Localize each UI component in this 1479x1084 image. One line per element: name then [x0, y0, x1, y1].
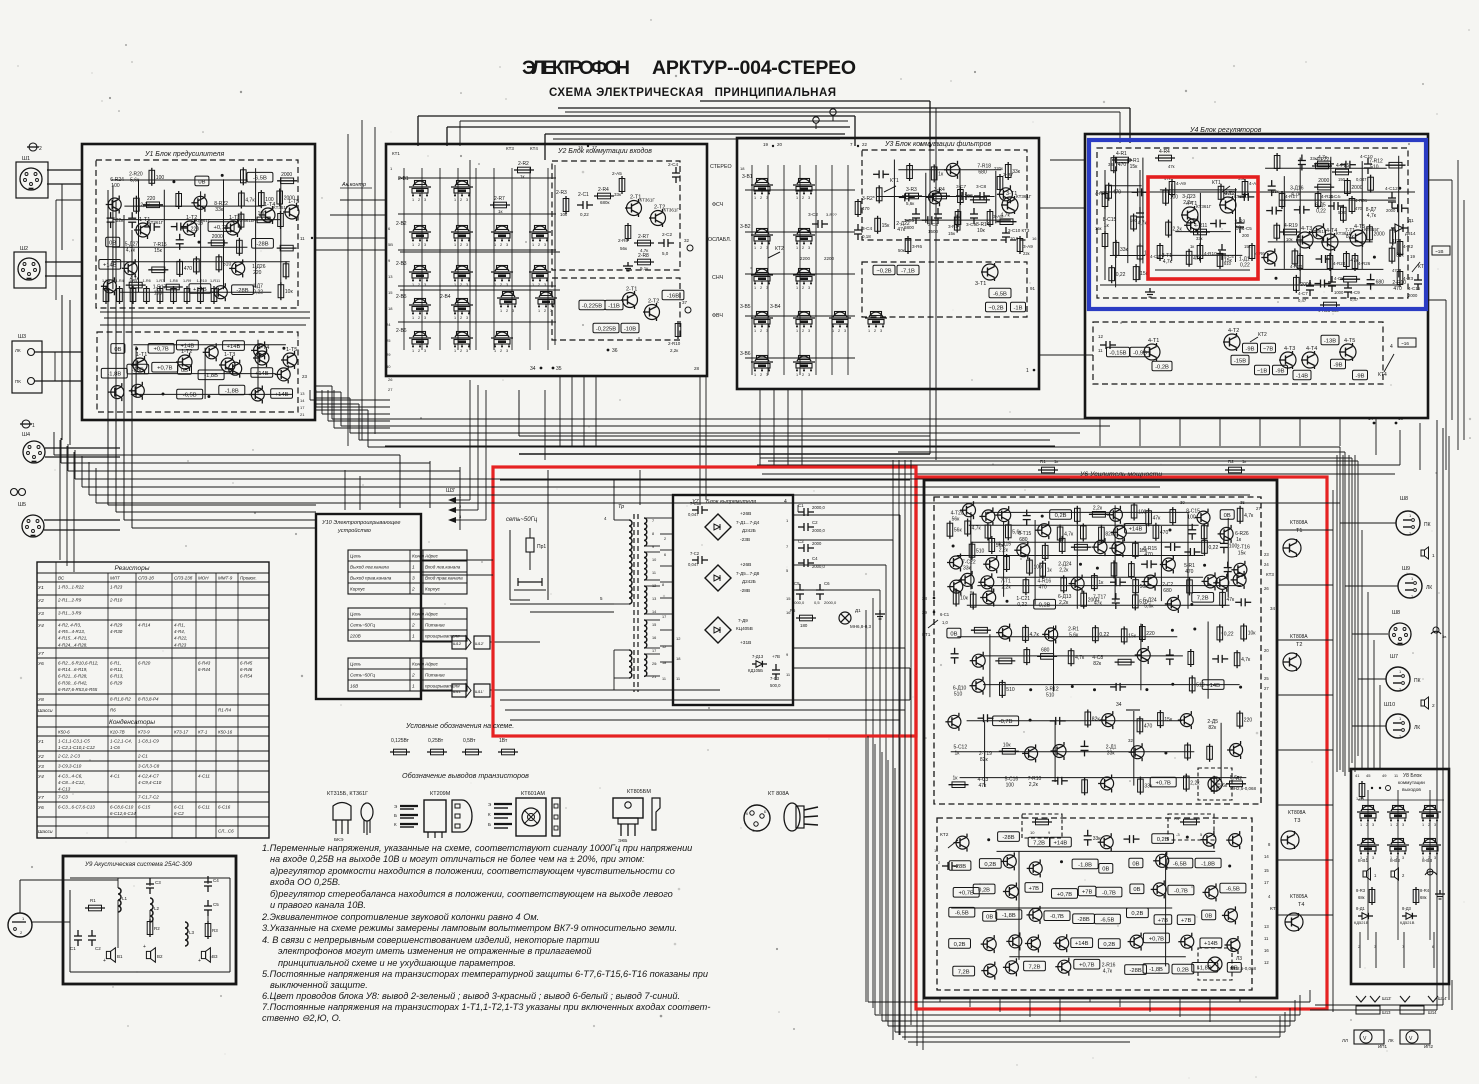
- svg-text:-1,8В: -1,8В: [107, 372, 121, 378]
- speaker icon 8-1: [1363, 871, 1367, 877]
- wire У1-У2 links: [315, 237, 386, 239]
- svg-text:КТ805А: КТ805А: [1290, 894, 1308, 900]
- wire У3-У4: [1039, 207, 1085, 209]
- resistor 2-R7: [490, 204, 510, 206]
- svg-text:-0,225В: -0,225В: [582, 303, 602, 309]
- svg-text:4-R24: 4-R24: [1333, 261, 1346, 266]
- svg-text:1-R7: 1-R7: [156, 279, 164, 283]
- svg-text:34: 34: [1116, 702, 1122, 708]
- svg-text:ПК: ПК: [1414, 678, 1421, 684]
- resistor 3-R5: [957, 209, 959, 227]
- wire: [893, 160, 895, 230]
- svg-text:2000,0: 2000,0: [812, 505, 825, 510]
- svg-text:3: 3: [424, 316, 426, 320]
- svg-text:устройство: устройство: [337, 527, 371, 534]
- svg-text:R1-R4: R1-R4: [218, 708, 232, 713]
- svg-text:4-R5...4-R13,: 4-R5...4-R13,: [58, 629, 85, 634]
- svg-text:+0,7В: +0,7В: [157, 366, 172, 372]
- capacitor: [1370, 274, 1372, 280]
- transistor: [956, 836, 969, 849]
- svg-text:200: 200: [1242, 233, 1250, 238]
- capacitor: [171, 226, 177, 228]
- wire ps verticals: [872, 598, 874, 1008]
- svg-text:~0,2В: ~0,2В: [988, 305, 1003, 311]
- junction: [172, 180, 175, 183]
- capacitor: [1212, 658, 1218, 660]
- resistor: [1076, 506, 1078, 524]
- svg-text:3-С2: 3-С2: [808, 212, 819, 217]
- svg-text:К: К: [394, 822, 397, 827]
- wire: [1142, 158, 1144, 264]
- svg-text:R6: R6: [110, 708, 116, 713]
- svg-text:220: 220: [1146, 631, 1155, 637]
- resistor: [1392, 228, 1394, 246]
- wire У6 right nest: [1339, 447, 1341, 770]
- resistor row У1: [105, 286, 107, 304]
- svg-text:R1: R1: [90, 898, 96, 903]
- svg-text:3: 3: [1372, 856, 1374, 860]
- svg-text:7,2В: 7,2В: [1033, 840, 1045, 846]
- voltage label: [1227, 963, 1241, 973]
- svg-text:16В: 16В: [350, 684, 358, 689]
- capacitor C1 У9: [77, 930, 79, 936]
- svg-text:-1,8В: -1,8В: [204, 373, 218, 379]
- svg-text:С5: С5: [794, 581, 800, 586]
- resistor: [970, 199, 990, 201]
- transistor: [1101, 777, 1114, 790]
- wire: [951, 907, 1172, 909]
- capacitor 4-С4: [1221, 244, 1223, 250]
- svg-text:15к: 15к: [1164, 717, 1173, 723]
- resistor: [151, 168, 153, 186]
- terminal antenna 2: [830, 109, 836, 115]
- svg-text:3: 3: [544, 243, 546, 247]
- svg-text:входа ОО 0,25В.: входа ОО 0,25В.: [270, 877, 341, 887]
- svg-text:15к: 15к: [1238, 551, 1247, 557]
- svg-text:+: +: [103, 958, 106, 964]
- svg-text:2: 2: [460, 349, 462, 353]
- svg-text:L1: L1: [122, 896, 128, 901]
- svg-text:0В: 0В: [114, 347, 121, 353]
- resistor R1 top: [1038, 469, 1058, 471]
- svg-text:0В: 0В: [986, 915, 993, 921]
- svg-text:1к: 1к: [1236, 537, 1242, 543]
- svg-text:4-R30: 4-R30: [110, 629, 123, 634]
- svg-text:33к: 33к: [1310, 156, 1317, 161]
- junction: [282, 347, 285, 350]
- svg-text:ПК: ПК: [1424, 522, 1431, 528]
- wire: [1171, 184, 1173, 261]
- svg-text:4-R11: 4-R11: [1194, 223, 1207, 229]
- svg-text:МОН: МОН: [198, 576, 209, 581]
- resistor: [1345, 251, 1347, 269]
- speaker В1: [106, 951, 110, 958]
- wire У10-Ш12: [421, 641, 452, 643]
- voltage label: [195, 176, 209, 186]
- svg-text:2,2к: 2,2к: [1059, 600, 1069, 606]
- voltage label: [1074, 959, 1100, 969]
- wire: [1054, 722, 1056, 783]
- svg-text:0,125Вт: 0,125Вт: [391, 738, 410, 744]
- svg-text:15: 15: [652, 623, 656, 627]
- wire: [959, 168, 961, 223]
- svg-text:-28В: -28В: [256, 242, 268, 248]
- svg-text:Шасси: Шасси: [38, 708, 53, 714]
- block У4 dashed: [1097, 148, 1408, 298]
- svg-text:К73-17: К73-17: [174, 730, 189, 735]
- svg-text:28: 28: [694, 366, 700, 371]
- transistor: [963, 504, 976, 517]
- svg-text:1-С8,1-С9: 1-С8,1-С9: [138, 739, 159, 744]
- resistor: [1113, 560, 1115, 578]
- transistor: [1313, 226, 1326, 239]
- svg-text:3: 3: [808, 329, 810, 333]
- svg-text:1к: 1к: [938, 171, 944, 177]
- svg-text:1-Т5: 1-Т5: [286, 347, 297, 353]
- svg-text:R2: R2: [1228, 459, 1234, 464]
- svg-text:6-R54: 6-R54: [240, 674, 253, 679]
- svg-text:КД521В: КД521В: [1400, 920, 1415, 925]
- svg-text:4-С15: 4-С15: [1408, 286, 1421, 291]
- wire: [135, 346, 137, 397]
- svg-text:3: 3: [808, 196, 810, 200]
- svg-text:2: 2: [664, 537, 666, 541]
- svg-text:1Вт: 1Вт: [499, 738, 508, 744]
- capacitor: [1266, 210, 1272, 212]
- svg-text:2-R10: 2-R10: [668, 341, 681, 346]
- resistor: [1386, 164, 1406, 166]
- transformer Тр secondary 4: [644, 620, 647, 648]
- svg-text:К10-7В: К10-7В: [110, 730, 125, 735]
- svg-text:ВС: ВС: [58, 576, 65, 581]
- svg-text:34: 34: [530, 366, 536, 372]
- svg-text:1: 1: [454, 349, 456, 353]
- wire У10-Ш11: [421, 689, 452, 691]
- terminal 32: [687, 245, 693, 251]
- resistor 4-R21: [1317, 191, 1319, 209]
- svg-text:-0,7В: -0,7В: [1174, 888, 1188, 894]
- svg-text:2: 2: [1432, 703, 1435, 709]
- svg-text:~7В: ~7В: [1263, 346, 1274, 352]
- svg-text:33к: 33к: [614, 192, 621, 197]
- svg-text:Ш12: Ш12: [453, 641, 462, 646]
- wire: [984, 722, 986, 787]
- svg-text:R4: R4: [1174, 816, 1180, 821]
- svg-text:3: 3: [808, 286, 810, 290]
- svg-text:КТ209М: КТ209М: [430, 791, 451, 797]
- voltage label: [1050, 837, 1072, 847]
- transistor: [950, 556, 963, 569]
- svg-text:R1: R1: [1040, 459, 1046, 464]
- resistor 2-R2: [514, 169, 534, 171]
- voltage label: [1154, 915, 1172, 925]
- resistor: [1226, 783, 1246, 785]
- svg-text:4,7к: 4,7к: [1244, 513, 1254, 519]
- svg-text:24: 24: [1264, 562, 1269, 567]
- svg-text:Т1: Т1: [1296, 528, 1302, 534]
- wire У6 left bundle: [892, 460, 894, 1040]
- wire: [967, 604, 1230, 606]
- svg-text:23: 23: [1264, 552, 1269, 557]
- svg-text:4-С8...4-С12,: 4-С8...4-С12,: [58, 780, 85, 785]
- svg-text:Ш7: Ш7: [1390, 654, 1398, 660]
- transistor: [983, 938, 996, 951]
- transistor: [998, 509, 1011, 522]
- block У10 outline: [316, 514, 421, 699]
- transistor 2-Т1 lower: [623, 293, 638, 308]
- resistor: [1135, 264, 1137, 282]
- voltage label: [1202, 910, 1216, 920]
- junction: [1203, 564, 1206, 567]
- svg-text:510: 510: [1224, 261, 1232, 266]
- resistor: [1133, 214, 1135, 232]
- resistor: [1148, 508, 1150, 526]
- svg-text:Ш13: Ш13: [1382, 1010, 1391, 1015]
- svg-text:10к: 10к: [977, 228, 986, 234]
- junction: [1041, 515, 1044, 518]
- resistor: [240, 212, 242, 230]
- resistor: [1006, 554, 1008, 572]
- svg-text:47к: 47к: [1153, 515, 1162, 521]
- svg-text:сеть~50Гц: сеть~50Гц: [506, 517, 538, 523]
- svg-text:36: 36: [612, 348, 618, 354]
- resistor: [1007, 162, 1009, 180]
- svg-text:5,6к: 5,6к: [906, 201, 914, 206]
- svg-text:680: 680: [1376, 280, 1385, 286]
- resistor 3-R4: [930, 195, 950, 197]
- transistor: [972, 679, 985, 692]
- transistor: [1230, 744, 1243, 757]
- svg-text:7-Д9: 7-Д9: [738, 618, 748, 623]
- resistor 3-R2: [857, 199, 859, 217]
- svg-text:+0,7В: +0,7В: [1079, 963, 1094, 969]
- voltage label: [177, 389, 203, 399]
- svg-text:и правого канала 10В.: и правого канала 10В.: [270, 900, 366, 910]
- svg-text:2,2к: 2,2к: [1093, 505, 1103, 511]
- resistor: [135, 196, 137, 214]
- transistor: [929, 191, 942, 204]
- transistor: [972, 654, 985, 667]
- svg-text:Ш11': Ш11': [475, 689, 484, 694]
- svg-text:-0,2В: -0,2В: [1155, 364, 1169, 370]
- svg-text:4-С8: 4-С8: [1334, 276, 1344, 281]
- svg-text:~1В: ~1В: [1257, 368, 1268, 374]
- svg-text:У6 Усилитель мощности: У6 Усилитель мощности: [1079, 471, 1162, 478]
- wire: [995, 171, 997, 224]
- wire red box internal links: [500, 699, 910, 701]
- svg-text:0,2В: 0,2В: [954, 942, 966, 948]
- switch contact group У2-2: [451, 186, 473, 188]
- transistor: [1167, 597, 1180, 610]
- capacitor 3-С2: [812, 223, 818, 225]
- svg-text:0,22: 0,22: [1017, 602, 1027, 608]
- wire: [1133, 711, 1135, 786]
- wire Ш1 leads: [47, 169, 82, 171]
- svg-text:С1: С1: [798, 503, 804, 508]
- svg-text:25: 25: [1264, 676, 1269, 681]
- wire У9 bottom bus: [70, 971, 230, 973]
- voltage label 3-Т1 boxes: [873, 265, 895, 275]
- svg-text:4-R24...4-R28.: 4-R24...4-R28.: [58, 642, 88, 647]
- resistor: [1026, 647, 1028, 665]
- wire У4 to right edge: [1428, 179, 1452, 181]
- svg-text:1к: 1к: [1054, 459, 1058, 464]
- resistor: [240, 191, 242, 209]
- switch contact group У2-16: [451, 337, 473, 339]
- svg-text:КТ361Г: КТ361Г: [195, 218, 211, 223]
- capacitor: [1110, 686, 1116, 688]
- resistor: [1042, 561, 1044, 579]
- svg-text:Условные обозначения на схеме.: Условные обозначения на схеме.: [405, 722, 514, 730]
- resistor: [1219, 624, 1221, 642]
- svg-text:15к: 15к: [1139, 548, 1148, 554]
- svg-text:6-R14...6-R19,: 6-R14...6-R19,: [58, 667, 88, 672]
- svg-text:2: 2: [411, 623, 415, 629]
- capacitor 4-С9: [1347, 282, 1349, 288]
- svg-text:6-R1,: 6-R1,: [110, 661, 121, 666]
- wire: [1140, 624, 1142, 691]
- switch contact group У2-7: [409, 271, 431, 273]
- svg-text:7,2В: 7,2В: [1197, 596, 1209, 602]
- junction: [1171, 629, 1174, 632]
- svg-text:1к: 1к: [1242, 459, 1246, 464]
- svg-text:У2: У2: [38, 754, 44, 760]
- svg-text:3.Указанные на схеме режимы: 3.Указанные на схеме режимы замерены лам…: [262, 923, 677, 933]
- svg-text:20: 20: [777, 142, 783, 147]
- svg-text:19: 19: [1410, 254, 1416, 259]
- trim box 1: [1022, 814, 1062, 838]
- svg-text:2: 2: [460, 243, 462, 247]
- svg-text:2-R6: 2-R6: [618, 238, 629, 243]
- wire top bus 6: [460, 120, 848, 122]
- resistor: [1391, 246, 1393, 264]
- svg-text:С4: С4: [812, 556, 818, 561]
- svg-text:8-R4: 8-R4: [1420, 888, 1430, 893]
- svg-text:2-С1: 2-С1: [578, 192, 589, 198]
- svg-text:-9В: -9В: [1355, 373, 1364, 379]
- resistor: [1314, 163, 1334, 165]
- svg-text:1: 1: [868, 329, 870, 333]
- voltage label: [1127, 908, 1149, 918]
- svg-text:+31В: +31В: [740, 640, 751, 646]
- resistor 8-R4: [1415, 887, 1417, 905]
- resistor 4-R23: [1320, 304, 1340, 306]
- speaker В3: [201, 951, 205, 958]
- svg-text:18: 18: [676, 656, 681, 661]
- svg-text:0В: 0В: [1102, 867, 1109, 873]
- voltage 4-Т3: [1255, 365, 1270, 375]
- block У7 outline: [673, 495, 793, 705]
- voltage label -16В: [662, 290, 684, 300]
- svg-text:2000,0: 2000,0: [824, 600, 837, 605]
- svg-text:Ш12': Ш12': [475, 641, 484, 646]
- svg-text:КТ3: КТ3: [1266, 572, 1274, 577]
- svg-text:Корпус: Корпус: [425, 587, 441, 592]
- svg-text:1: 1: [1432, 553, 1435, 559]
- capacitor 3-С6: [937, 208, 939, 214]
- transistor 4-Т1: [1182, 207, 1198, 223]
- svg-text:б)регулятор стереобаланса на: б)регулятор стереобаланса находится в по…: [270, 889, 673, 899]
- svg-text:4-С9,4-С10: 4-С9,4-С10: [138, 780, 162, 785]
- resistor: [1087, 710, 1089, 728]
- svg-text:500,0: 500,0: [770, 683, 781, 688]
- svg-text:К73-9: К73-9: [138, 730, 150, 735]
- coil L1: [118, 888, 121, 912]
- svg-text:10к: 10к: [1003, 742, 1012, 748]
- wire top bus 8: [565, 111, 1120, 113]
- wire: [163, 190, 165, 282]
- svg-text:4-С3...4-С6,: 4-С3...4-С6,: [58, 774, 83, 779]
- resistor: [280, 282, 282, 300]
- capacitor C2 У9: [91, 930, 93, 936]
- resistor: [878, 185, 880, 203]
- svg-text:Ш1: Ш1: [22, 156, 30, 162]
- capacitor 3-С5: [915, 208, 917, 214]
- voltage label: [1052, 889, 1078, 899]
- svg-text:Сеть~50Гц: Сеть~50Гц: [350, 673, 375, 678]
- wire У7 out bus: [793, 514, 900, 516]
- junction: [952, 545, 955, 548]
- svg-text:-0,7В: -0,7В: [1102, 891, 1116, 897]
- transistor 4-Т4: [1322, 234, 1338, 250]
- svg-text:100: 100: [154, 290, 163, 296]
- wire У6 top nest: [905, 446, 1340, 448]
- table У10 адрес 3: [348, 658, 467, 691]
- terminal ⊖1: [22, 420, 30, 428]
- svg-text:7-Д5...7-Д8: 7-Д5...7-Д8: [736, 571, 760, 576]
- svg-text:Д1: Д1: [855, 608, 861, 613]
- resistor: [1314, 186, 1334, 188]
- switch contact group У8-3: [1419, 811, 1441, 813]
- wire: [925, 173, 927, 223]
- wire У4 exits down: [1099, 418, 1101, 446]
- svg-text:2,2к: 2,2к: [1190, 781, 1200, 787]
- transistor 3-Т1: [1002, 197, 1018, 213]
- resistor: [1070, 648, 1072, 666]
- lamp Л3: [1198, 948, 1232, 980]
- wire: [1265, 167, 1387, 169]
- svg-text:10к: 10к: [960, 596, 969, 602]
- transformer Тр core: [633, 514, 635, 692]
- svg-text:1000: 1000: [1334, 290, 1344, 295]
- svg-text:3-А9: 3-А9: [1023, 244, 1033, 249]
- svg-text:2: 2: [411, 673, 415, 679]
- svg-text:1к: 1к: [1190, 244, 1194, 249]
- wire У2 switch cols: [403, 168, 405, 350]
- svg-text:КТ805БМ: КТ805БМ: [627, 789, 651, 795]
- transistor: [194, 196, 207, 209]
- capacitor: [110, 212, 112, 218]
- resistor: [1340, 278, 1360, 280]
- svg-text:-10В: -10В: [624, 326, 636, 332]
- transistor 1-Т3: [226, 221, 240, 235]
- svg-text:0В: 0В: [950, 632, 957, 638]
- capacitor 4-С15: [1417, 274, 1419, 280]
- highlight red rectangle У4: [1148, 177, 1258, 279]
- svg-text:1-Т4: 1-Т4: [258, 345, 269, 351]
- svg-text:0,047: 0,047: [1356, 177, 1367, 182]
- resistor 4-R22: [1312, 165, 1332, 167]
- svg-text:3: 3: [466, 349, 468, 353]
- svg-text:3-В2: 3-В2: [740, 224, 751, 230]
- svg-text:0,2В: 0,2В: [1157, 837, 1169, 843]
- wire trans top link: [613, 480, 615, 520]
- voltage label: [99, 260, 121, 270]
- wire: [112, 185, 114, 289]
- svg-text:КТ361В: КТ361В: [238, 218, 254, 223]
- svg-text:1: 1: [412, 243, 414, 247]
- wire: [957, 636, 1177, 638]
